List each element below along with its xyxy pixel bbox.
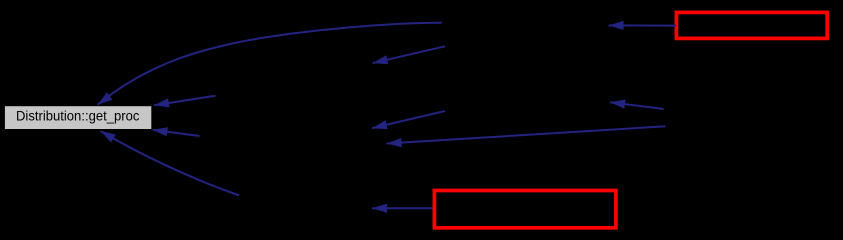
edge G: far-right hidden node long line to lower-middle hidden node [387, 126, 666, 147]
edge H: lower-middle hidden node into grey node right [153, 127, 200, 136]
svg-text:Distribution::get_proc: Distribution::get_proc [16, 108, 139, 124]
edge E: far-right hidden node to mid hidden node [610, 100, 664, 110]
edge D: red box 1 to top hidden node [609, 21, 676, 30]
node red box 2 (truncated caller, bottom) [434, 191, 616, 228]
edge C: upper-middle hidden node into grey node top-right [154, 96, 216, 108]
node red box 1 (truncated caller, top right) [676, 12, 827, 38]
edge F: mid hidden node to lower-middle hidden node [372, 111, 445, 129]
edge B: mid-top node to upper-middle hidden node [373, 46, 445, 64]
edge J: red box 2 to bottom hidden node [372, 204, 433, 213]
edge I: curve from bottom hidden node into grey node bottom [101, 131, 240, 196]
node Distribution::get_proc (current function, grey) [5, 106, 151, 129]
edge A: long curve into top of grey node [98, 23, 442, 105]
